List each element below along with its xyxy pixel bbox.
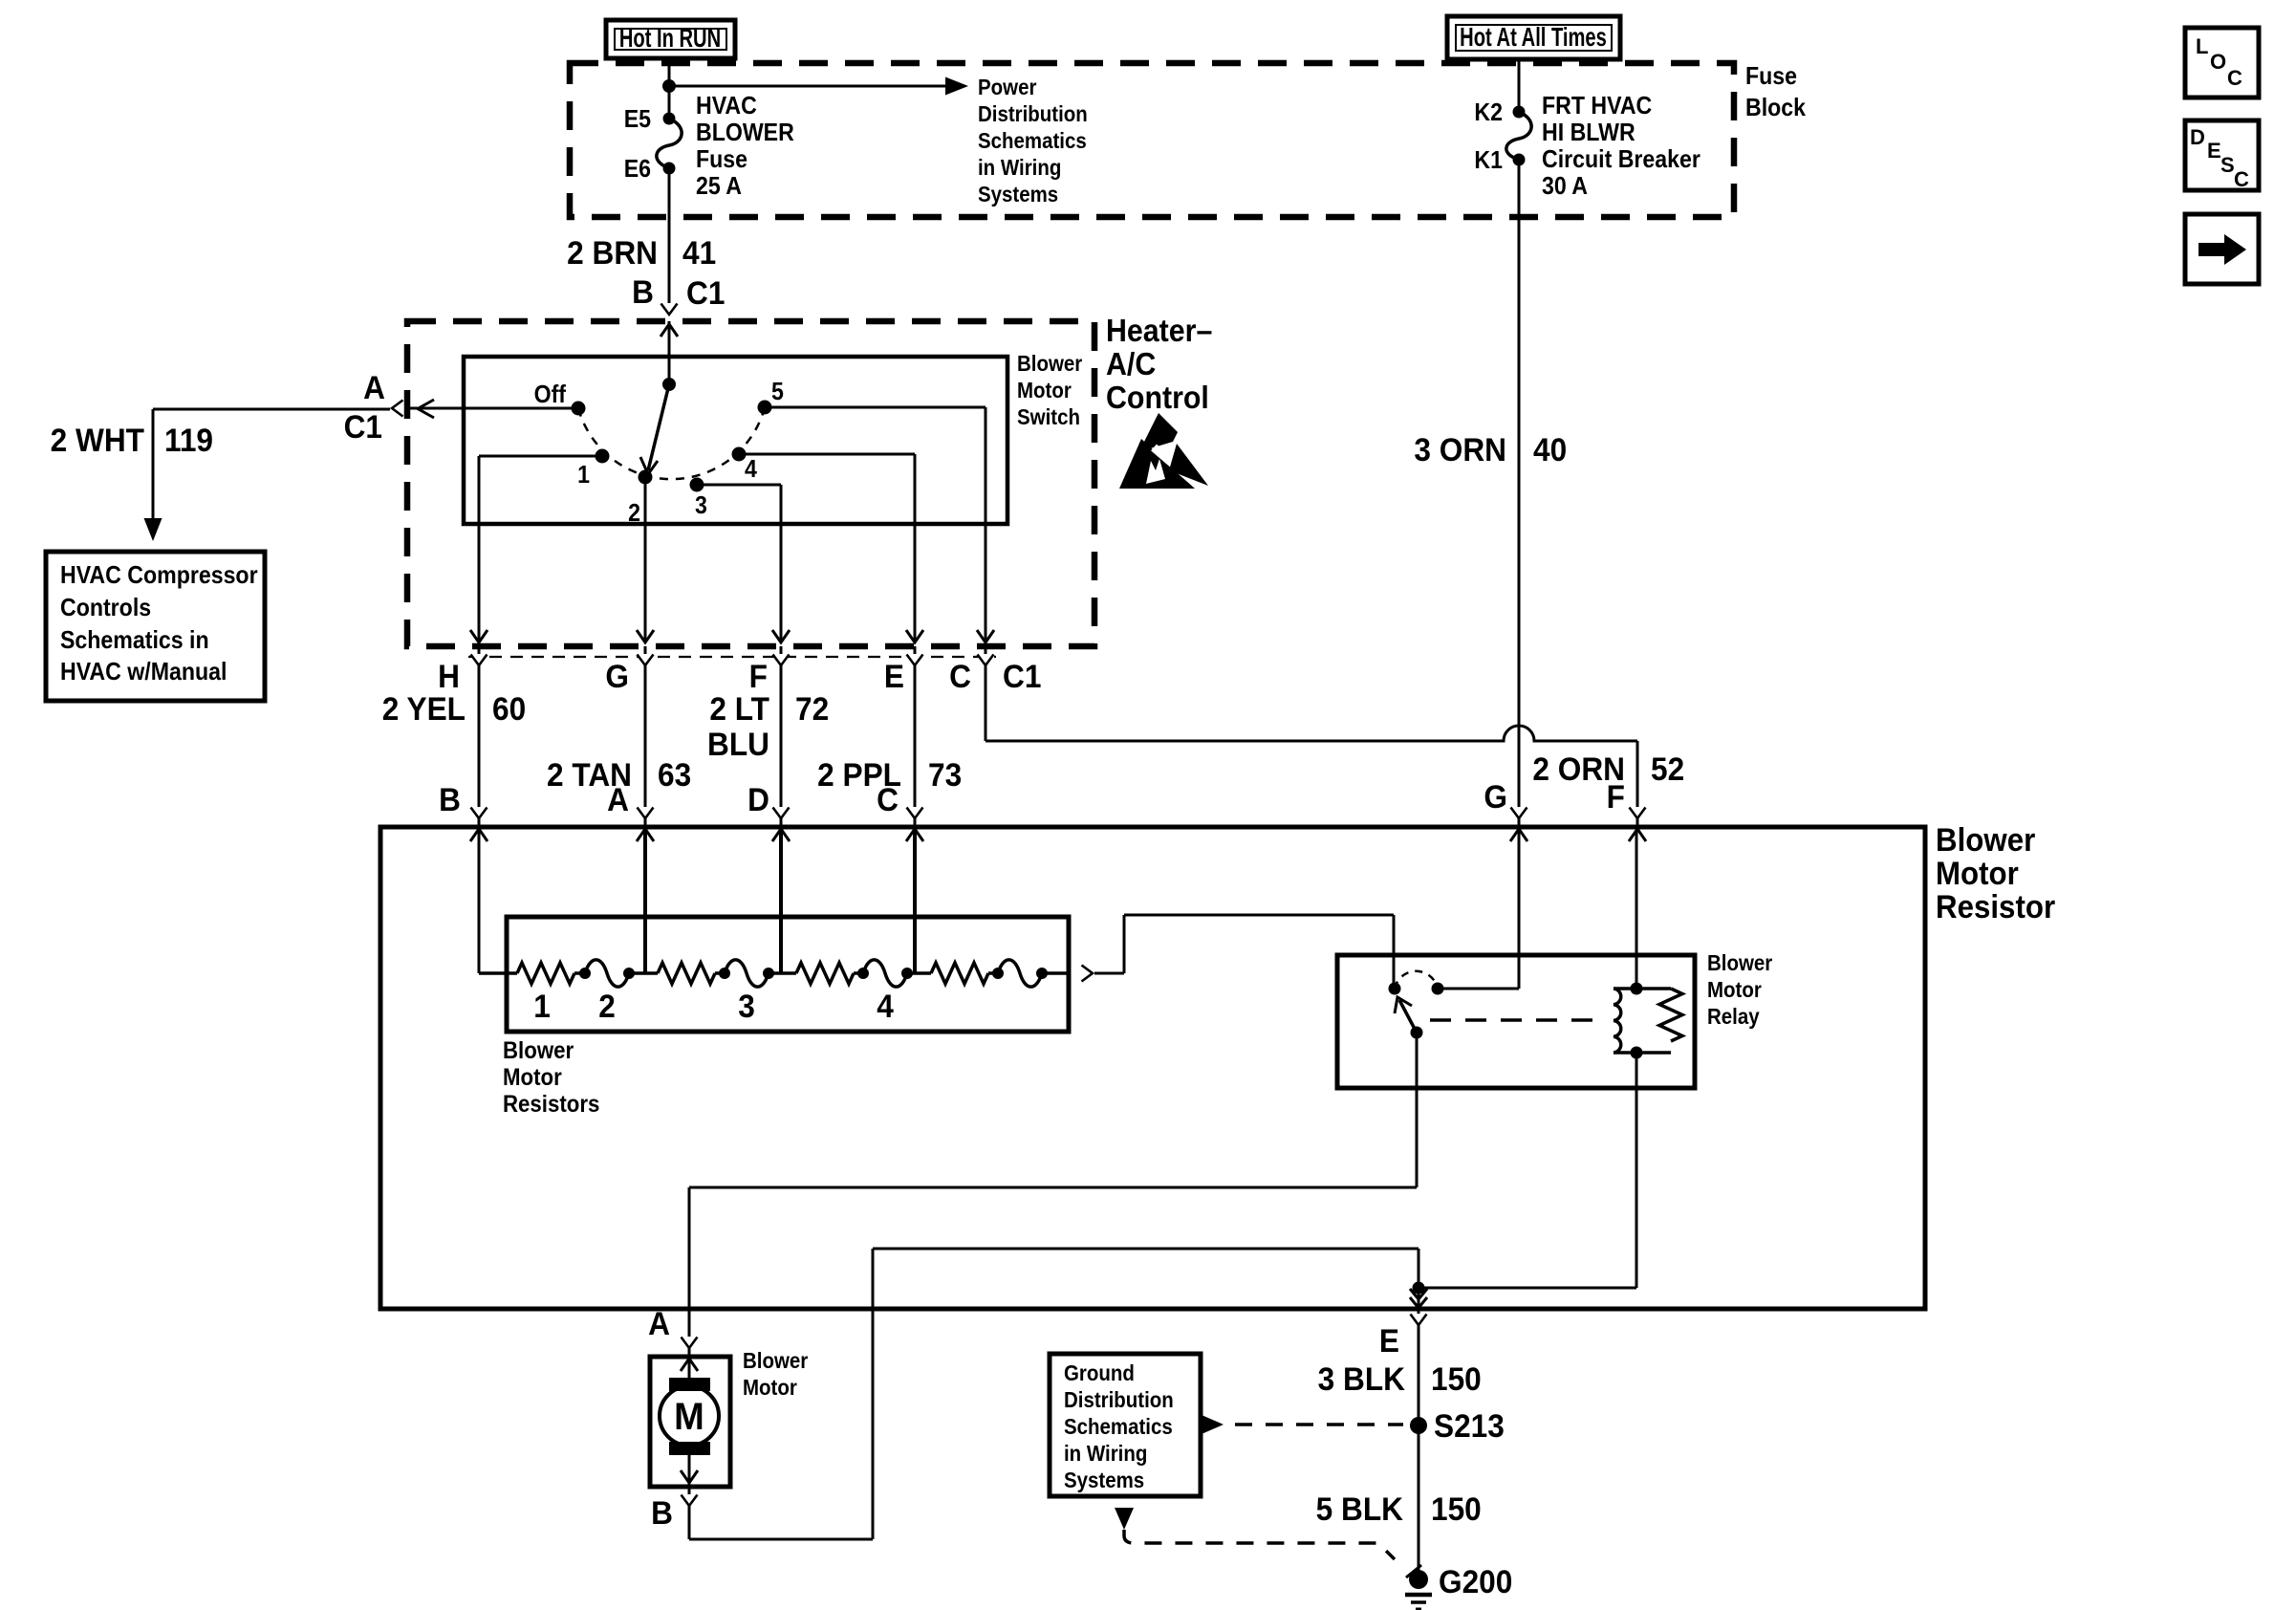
- svg-text:B: B: [651, 1494, 673, 1531]
- resistor chain: [479, 960, 1069, 987]
- wire: arrow to Power Distribution: [669, 77, 968, 96]
- Blower Motor Resistor label: [1936, 821, 2055, 925]
- svg-text:Blower: Blower: [743, 1348, 809, 1373]
- svg-text:S213: S213: [1434, 1407, 1505, 1444]
- connector letters B A D C: [439, 781, 899, 817]
- svg-text:4: 4: [745, 456, 757, 484]
- svg-text:F: F: [749, 658, 768, 694]
- svg-text:in Wiring: in Wiring: [978, 155, 1061, 180]
- connector A into blower motor: [688, 1309, 691, 1357]
- wire: contact 5 to C: [765, 407, 986, 642]
- resistor R3: [796, 963, 854, 984]
- connector B below motor: [688, 1487, 691, 1508]
- svg-text:E6: E6: [624, 156, 651, 184]
- svg-text:73: 73: [928, 756, 962, 793]
- svg-text:2 LT: 2 LT: [709, 690, 769, 727]
- Ground Distribution note box: [1050, 1354, 1201, 1496]
- wire: contact 3 to F: [697, 485, 781, 642]
- node: ground junction: [1413, 1282, 1425, 1295]
- svg-text:Ground: Ground: [1064, 1360, 1135, 1385]
- blower motor resistors inner box: [507, 917, 1069, 1032]
- svg-text:119: 119: [164, 422, 213, 458]
- svg-text:D: D: [2190, 125, 2205, 149]
- svg-text:Schematics in: Schematics in: [60, 627, 209, 655]
- wire: 2 BRN 41 fuse to switch: [668, 168, 671, 315]
- svg-text:M: M: [674, 1396, 704, 1438]
- entry arrows inside box top: [470, 829, 487, 841]
- svg-text:C1: C1: [1003, 658, 1041, 694]
- Heater A/C Control label: [1106, 313, 1212, 415]
- switch arm: [640, 378, 676, 474]
- svg-text:G: G: [1484, 778, 1507, 815]
- relay coil with parallel resistor: [1614, 983, 1682, 1059]
- dashed link to G200: [1115, 1508, 1395, 1559]
- svg-text:150: 150: [1431, 1360, 1482, 1397]
- svg-text:Circuit Breaker: Circuit Breaker: [1542, 146, 1700, 174]
- wire label 2 TAN 63: [547, 756, 691, 793]
- switch rotor dashed arc: [578, 407, 765, 479]
- svg-text:3 BLK: 3 BLK: [1318, 1360, 1406, 1397]
- svg-text:BLU: BLU: [707, 726, 769, 762]
- power distribution note: [978, 75, 1088, 207]
- HVAC Compressor Controls note box: [46, 552, 265, 701]
- svg-text:Systems: Systems: [1064, 1468, 1144, 1492]
- svg-text:Blower: Blower: [1707, 950, 1773, 975]
- svg-text:Control: Control: [1106, 380, 1209, 415]
- svg-text:C: C: [2227, 66, 2242, 90]
- svg-text:Hot In RUN: Hot In RUN: [619, 24, 721, 54]
- wire label 2 YEL 60: [382, 690, 526, 727]
- wire: 2 WHT 119 to HVAC compressor controls: [144, 409, 391, 541]
- wire label 2 PPL 73: [817, 756, 962, 793]
- svg-text:C: C: [877, 781, 899, 817]
- wire: motor B return: [689, 1249, 1419, 1539]
- Hot At All Times label box: [1447, 16, 1620, 59]
- svg-text:C: C: [2234, 167, 2249, 191]
- E exit connector to ground: [1418, 1309, 1420, 1425]
- svg-text:Hot At All Times: Hot At All Times: [1460, 23, 1607, 53]
- wire label 5 BLK 150: [1418, 1425, 1420, 1576]
- svg-text:HVAC: HVAC: [696, 93, 757, 120]
- relay actuation dashed link: [1430, 1018, 1605, 1022]
- svg-text:2 WHT: 2 WHT: [51, 422, 144, 458]
- fuse block label: [1745, 63, 1806, 122]
- svg-text:Blower: Blower: [1017, 351, 1083, 376]
- wire: G to relay: [1518, 829, 1521, 989]
- wire: junction to E with exit arrows: [1418, 1288, 1420, 1309]
- svg-text:A: A: [363, 369, 385, 405]
- svg-text:HVAC w/Manual: HVAC w/Manual: [60, 659, 227, 686]
- resistor R2: [658, 963, 715, 984]
- svg-text:41: 41: [682, 234, 716, 271]
- svg-text:L: L: [2196, 34, 2208, 58]
- wires: taps to resistor chain: [478, 829, 481, 973]
- svg-text:Schematics: Schematics: [1064, 1414, 1173, 1439]
- resistor R4: [931, 963, 988, 984]
- svg-text:G: G: [605, 658, 629, 694]
- svg-text:FRT HVAC: FRT HVAC: [1542, 93, 1652, 120]
- svg-text:D: D: [747, 781, 769, 817]
- svg-text:Resistor: Resistor: [1936, 888, 2055, 925]
- svg-text:E: E: [2207, 139, 2221, 163]
- svg-text:F: F: [1607, 778, 1625, 815]
- svg-text:K2: K2: [1474, 99, 1503, 127]
- node: feed junction: [662, 79, 676, 93]
- svg-text:Motor: Motor: [1707, 977, 1762, 1002]
- arrow legend box: [2185, 214, 2259, 284]
- wires through connector: [478, 646, 481, 827]
- wire label 2 ORN 52: [1532, 751, 1684, 787]
- svg-text:K1: K1: [1474, 147, 1503, 175]
- svg-text:Blower: Blower: [503, 1038, 574, 1064]
- svg-text:5 BLK: 5 BLK: [1316, 1490, 1404, 1527]
- svg-text:Block: Block: [1745, 95, 1806, 122]
- fuse F: HVAC BLOWER Fuse 25A (E5-E6): [624, 93, 794, 201]
- svg-text:Switch: Switch: [1017, 404, 1080, 429]
- svg-text:5: 5: [771, 379, 784, 406]
- svg-text:Heater–: Heater–: [1106, 313, 1212, 348]
- svg-text:G200: G200: [1439, 1563, 1512, 1599]
- Blower Motor Resistors label: [503, 1038, 599, 1118]
- fuse block dashed box: [570, 63, 1734, 217]
- wire label 3 BLK 150: [1318, 1360, 1482, 1397]
- svg-text:2 BRN: 2 BRN: [567, 234, 658, 271]
- svg-text:52: 52: [1651, 751, 1684, 787]
- resistor output connector: [1081, 967, 1092, 981]
- svg-text:Motor: Motor: [503, 1065, 562, 1091]
- resistor R1: [517, 963, 574, 984]
- svg-text:Distribution: Distribution: [978, 101, 1088, 126]
- ESD susceptibility symbol: [1119, 413, 1208, 492]
- svg-text:72: 72: [795, 690, 829, 727]
- svg-text:60: 60: [492, 690, 526, 727]
- svg-text:C: C: [949, 658, 971, 694]
- relay movable arm: [1395, 997, 1423, 1039]
- svg-text:H: H: [438, 658, 460, 694]
- motor armature: [660, 1357, 719, 1485]
- svg-text:Fuse: Fuse: [696, 146, 747, 174]
- svg-text:A/C: A/C: [1106, 346, 1156, 381]
- svg-text:Resistors: Resistors: [503, 1092, 599, 1118]
- wire: into switch with entry arrow: [668, 321, 671, 384]
- svg-text:2: 2: [598, 988, 616, 1024]
- connector A / C1 left exit: [344, 369, 418, 445]
- svg-text:Systems: Systems: [978, 182, 1058, 207]
- wire: contact 4 to E: [739, 454, 915, 642]
- switch contact 1: [577, 449, 609, 490]
- svg-text:25 A: 25 A: [696, 173, 742, 201]
- svg-text:Schematics: Schematics: [978, 128, 1087, 153]
- wire: C contact to 2 ORN 52 with hop over G wire: [986, 726, 1637, 808]
- connector letters G F: [1484, 778, 1625, 815]
- svg-text:BLOWER: BLOWER: [696, 120, 794, 147]
- svg-text:Controls: Controls: [60, 595, 151, 622]
- wire: Hot At All Times feed: [1518, 59, 1521, 112]
- switch contact 2: [628, 470, 652, 528]
- Hot In RUN label box: [606, 20, 735, 58]
- resistor tap numbers: [533, 988, 894, 1024]
- svg-text:E: E: [1379, 1322, 1399, 1359]
- svg-text:O: O: [2210, 50, 2226, 74]
- wire: relay arm to blower motor A: [689, 1033, 1417, 1309]
- svg-text:3: 3: [738, 988, 755, 1024]
- wire: contact 2 to G: [644, 477, 647, 642]
- svg-text:A: A: [648, 1305, 670, 1341]
- svg-text:Fuse: Fuse: [1745, 63, 1797, 91]
- svg-text:Relay: Relay: [1707, 1004, 1760, 1029]
- svg-text:E5: E5: [624, 106, 651, 134]
- switch contact 4: [732, 447, 758, 484]
- svg-text:A: A: [607, 781, 629, 817]
- svg-text:S: S: [2220, 153, 2235, 177]
- svg-text:Distribution: Distribution: [1064, 1387, 1174, 1412]
- svg-text:30 A: 30 A: [1542, 173, 1588, 201]
- svg-text:4: 4: [877, 988, 894, 1024]
- switch contact Off: [534, 381, 586, 416]
- wire: Hot In RUN feed: [668, 58, 671, 119]
- dashed link to S213: [1202, 1415, 1403, 1434]
- wire: 3 ORN 40 breaker to resistor block: [1518, 160, 1521, 808]
- relay common contact: [1389, 983, 1401, 995]
- svg-text:2 YEL: 2 YEL: [382, 690, 466, 727]
- svg-text:C1: C1: [686, 274, 725, 311]
- Blower Motor label: [743, 1348, 809, 1400]
- wire: resistor output to relay common: [1094, 915, 1394, 989]
- svg-text:Motor: Motor: [743, 1375, 797, 1400]
- svg-text:Off: Off: [534, 381, 567, 409]
- svg-text:Blower: Blower: [1936, 821, 2036, 859]
- wire: Off contact to A/C1 exit: [421, 407, 578, 410]
- svg-text:1: 1: [533, 988, 551, 1024]
- splice S213: [1410, 1407, 1505, 1444]
- Blower Motor Switch label: [1017, 351, 1083, 429]
- svg-text:in Wiring: in Wiring: [1064, 1441, 1147, 1466]
- connector B / C1: [632, 273, 725, 315]
- svg-text:1: 1: [577, 462, 590, 490]
- wire: contact 1 to H: [479, 456, 602, 642]
- svg-text:B: B: [439, 781, 461, 817]
- svg-text:C1: C1: [344, 408, 382, 445]
- relay NO contact: [1432, 983, 1520, 995]
- connector chevrons at resistor block top: [1518, 808, 1521, 827]
- ground G200: [1405, 1563, 1512, 1609]
- Blower Motor Relay label: [1707, 950, 1773, 1029]
- svg-text:40: 40: [1533, 431, 1567, 468]
- svg-text:Motor: Motor: [1017, 378, 1072, 402]
- svg-text:HI BLWR: HI BLWR: [1542, 120, 1635, 147]
- wire: relay coil return: [1419, 1053, 1636, 1288]
- Blower Motor Switch box: [464, 357, 1007, 524]
- DESC legend box: [2185, 120, 2259, 191]
- svg-text:3: 3: [695, 492, 707, 520]
- relay contact dashed arc: [1395, 971, 1438, 989]
- svg-text:150: 150: [1431, 1490, 1482, 1527]
- svg-text:Motor: Motor: [1936, 855, 2019, 892]
- svg-text:2: 2: [628, 500, 640, 528]
- switch contact 3: [690, 478, 707, 520]
- svg-text:HVAC Compressor: HVAC Compressor: [60, 562, 258, 590]
- svg-text:E: E: [884, 658, 904, 694]
- wire label 2 LT BLU 72: [707, 690, 829, 762]
- svg-text:Power: Power: [978, 75, 1037, 99]
- switch contact 5: [758, 379, 784, 415]
- exit arrowhead: [418, 400, 434, 418]
- svg-text:B: B: [632, 273, 654, 310]
- svg-text:63: 63: [658, 756, 691, 793]
- svg-text:3 ORN: 3 ORN: [1414, 431, 1506, 468]
- LOC legend box: [2185, 28, 2259, 98]
- wire: F to relay coil: [1635, 829, 1638, 989]
